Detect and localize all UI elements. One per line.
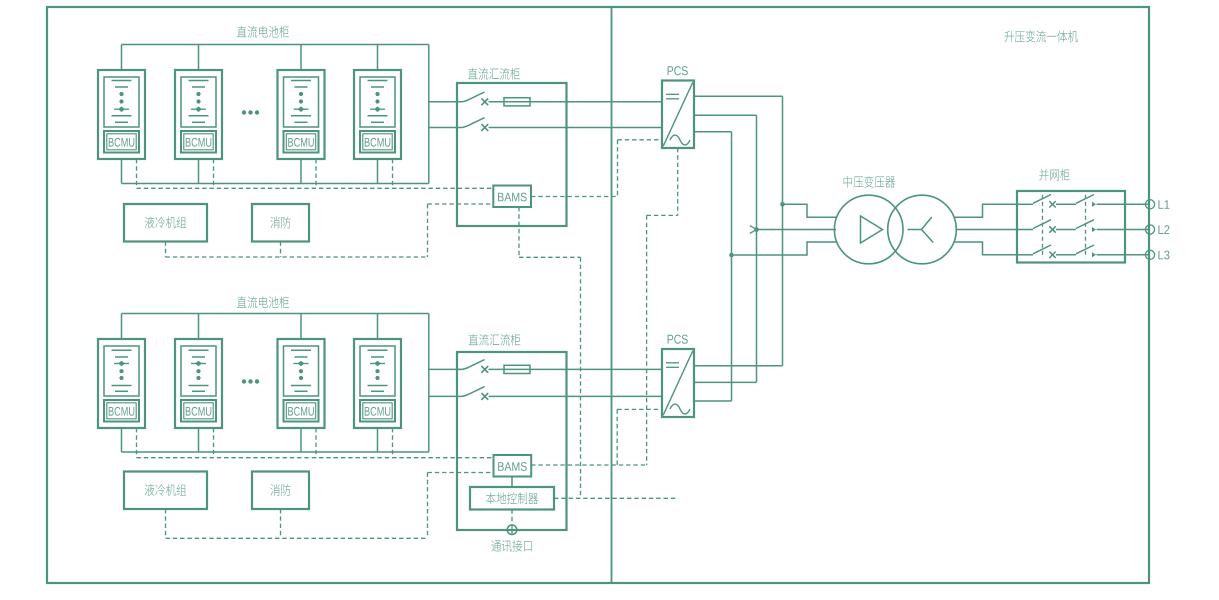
wire: module3 bottom drop group2 xyxy=(300,428,302,452)
transformer T1 primary winding (delta) xyxy=(834,195,903,264)
label: 直流汇流柜 1 xyxy=(468,68,520,80)
wire: transformer out L2 xyxy=(956,229,1017,231)
label: 直流电池柜 group2 xyxy=(237,296,289,308)
wire: aux comm bus group2 (dashed) xyxy=(166,537,428,539)
wire: aux comm bus group1 (dashed) xyxy=(166,256,428,258)
wire: 消防 drop group2 (dashed) xyxy=(280,509,282,538)
block: 本地控制器 xyxy=(470,487,554,510)
wire: drop bus→module3 group2 xyxy=(300,314,302,340)
wire: BCMU comm bus group2 (dashed) xyxy=(137,457,494,459)
wire: drop bus→module4 group2 xyxy=(377,314,379,340)
wire: drop bus→module1 group1 xyxy=(121,45,123,71)
wire: battery bottom bus group1 xyxy=(122,183,429,185)
wire: module4 bottom drop group2 xyxy=(377,428,379,452)
label: 中压变压器 xyxy=(844,176,896,188)
wire: BAMS1 bottom comm chain (dashed) xyxy=(519,207,581,498)
battery module M1 group2 (with BCMU) xyxy=(98,339,145,428)
wire: aux comm riser group2 (dashed) xyxy=(427,473,429,539)
wire: battery bus right riser group1 xyxy=(428,45,430,184)
wire: battery bus right riser group2 xyxy=(428,314,430,453)
wire: module4 bottom drop group1 xyxy=(377,159,379,184)
terminal L3 xyxy=(1145,250,1169,259)
wire: BCMU3 comm drop group2 (dashed) xyxy=(315,428,317,458)
battery module M2 group1 (with BCMU) xyxy=(175,70,222,159)
wire: PCS1 AC out L2 xyxy=(694,114,757,116)
battery module M4 group1 (with BCMU) xyxy=(354,70,401,159)
label: 并网柜 xyxy=(1039,169,1070,181)
label: 直流电池柜 group1 xyxy=(237,26,289,38)
wire+switch: 并网柜 row L3 xyxy=(1017,245,1150,258)
wire: aux comm riser group1 (dashed) xyxy=(427,204,429,257)
wire: BCMU comm bus group1 (dashed) xyxy=(137,187,494,189)
wire: BCMU2 comm drop group2 (dashed) xyxy=(213,428,215,458)
cabinet: 直流汇流柜 1 box xyxy=(457,83,567,226)
wire: module1 bottom drop group2 xyxy=(121,428,123,452)
port: 通讯接口 connector xyxy=(507,525,517,535)
converter PCS 2 xyxy=(662,335,694,417)
wire: PCS1 AC out L1 xyxy=(694,95,783,97)
switch QS2b + wire to PCS2 xyxy=(429,387,662,400)
wire: BCMU2 comm drop group1 (dashed) xyxy=(213,159,215,188)
wire: DC battery bus top group2 xyxy=(122,313,429,315)
battery module M4 group2 (with BCMU) xyxy=(354,339,401,428)
wire: transformer out L3 xyxy=(954,242,1017,255)
wire: AC bus riser L3 xyxy=(731,132,733,401)
wire: BAMS2→本地控制器 xyxy=(511,477,513,488)
wire: PCS2 AC out L2 xyxy=(694,381,757,383)
battery module M3 group1 (with BCMU) xyxy=(278,70,325,159)
wire: phase L3→transformer xyxy=(732,242,837,255)
wire: battery bottom bus group2 xyxy=(122,451,429,453)
block: 消防 group2 xyxy=(252,472,309,510)
wire: AC bus riser L2 xyxy=(756,115,758,382)
wire: PCS2 AC out L1 xyxy=(694,365,783,367)
wire: BCMU3 comm drop group1 (dashed) xyxy=(315,159,317,188)
cabinet: 直流汇流柜 2 box xyxy=(457,352,567,530)
label: section 升压变流一体机 xyxy=(1004,30,1077,42)
wire: gang link 2 (dashed) xyxy=(1085,195,1087,258)
wire: drop bus→module3 group1 xyxy=(300,45,302,71)
battery module M2 group2 (with BCMU) xyxy=(175,339,222,428)
block: 消防 group1 xyxy=(252,204,309,242)
wire: comm riser→PCS2 left (dashed) xyxy=(617,409,662,465)
junction: L3 tap xyxy=(729,253,734,258)
battery module M3 group2 (with BCMU) xyxy=(278,339,325,428)
wire: gang link 1 (dashed) xyxy=(1042,195,1044,258)
wire: BCMU4 comm drop group1 (dashed) xyxy=(392,159,394,188)
label: 通讯接口 xyxy=(491,540,531,552)
switch QS2a + fuse F2 + wire to PCS2 xyxy=(429,360,662,374)
wire: 本地控制器→PCS comm (dashed) xyxy=(554,497,678,499)
wire+switch: 并网柜 row L2 xyxy=(1017,220,1150,233)
battery module M1 group1 (with BCMU) xyxy=(98,70,145,159)
label: 直流汇流柜 2 xyxy=(469,334,521,346)
section divider wire xyxy=(611,7,613,583)
wire+switch: 并网柜 row L1 xyxy=(1017,195,1150,208)
wire: 消防 drop group1 (dashed) xyxy=(280,242,282,258)
wire: PCS1 AC out L3 xyxy=(694,131,732,133)
wire: phase L2→transformer xyxy=(757,229,837,231)
transformer T1 secondary winding (wye) xyxy=(888,195,957,264)
block: 液冷机组 group2 xyxy=(124,472,207,510)
wire: 液冷机组 drop group2 (dashed) xyxy=(165,509,167,538)
junction: L1 tap xyxy=(780,202,785,207)
node: ellipsis dots group2 xyxy=(242,379,259,383)
switch QS1b + wire to PCS1 xyxy=(429,118,662,131)
switch QS1a + fuse F1 + wire to PCS1 xyxy=(429,92,662,106)
wire: BAMS1→PCS1 comm (dashed) xyxy=(531,140,662,197)
wire: module1 bottom drop group1 xyxy=(121,159,123,184)
wire: AC bus riser L1 xyxy=(782,96,784,365)
terminal L2 xyxy=(1145,225,1169,234)
wire: drop bus→module2 group2 xyxy=(198,314,200,340)
cabinet: 并网柜 box xyxy=(1017,191,1125,263)
junction: L2 tap with arrow xyxy=(750,226,759,234)
wire: 液冷机组 drop group1 (dashed) xyxy=(165,242,167,258)
wire: PCS1 bottom comm chain (dashed) xyxy=(647,148,678,465)
wire: drop bus→module4 group1 xyxy=(377,45,379,71)
wire: BCMU1 comm drop group1 (dashed) xyxy=(136,159,138,188)
wire: drop bus→module2 group1 xyxy=(198,45,200,71)
wire: BCMU1 comm drop group2 (dashed) xyxy=(136,428,138,458)
wire: BAMS2 comm right (dashed) xyxy=(531,464,646,466)
block: BAMS 2 xyxy=(494,455,532,477)
wire: 本地控制器 drop to port (dashed) xyxy=(511,510,513,525)
wire: PCS2 AC out L3 xyxy=(694,400,732,402)
terminal L1 xyxy=(1145,200,1169,209)
wire: aux comm→BAMS2 (dashed) xyxy=(428,472,494,474)
block: 液冷机组 group1 xyxy=(124,204,207,242)
wire: drop bus→module1 group2 xyxy=(121,314,123,340)
wire: BCMU4 comm drop group2 (dashed) xyxy=(392,428,394,458)
wire: module3 bottom drop group1 xyxy=(300,159,302,184)
block: BAMS 1 xyxy=(493,186,531,208)
wire: module2 bottom drop group2 xyxy=(198,428,200,452)
node: ellipsis dots group1 xyxy=(242,110,259,114)
wire: DC battery bus top group1 xyxy=(122,44,429,46)
wire: aux comm→BAMS1 (dashed) xyxy=(428,203,494,205)
wire: transformer out L1 xyxy=(954,204,1017,217)
converter PCS 1 xyxy=(662,66,694,148)
wire: module2 bottom drop group1 xyxy=(198,159,200,184)
wire: phase L1→transformer xyxy=(783,204,837,217)
